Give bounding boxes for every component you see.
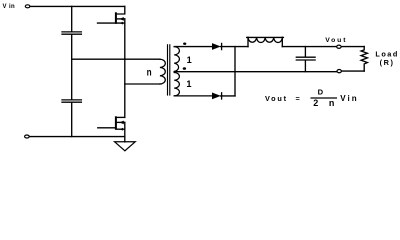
- svg-text:1: 1: [187, 55, 192, 65]
- svg-text:1: 1: [186, 79, 191, 89]
- svg-text:V in: V in: [3, 4, 16, 10]
- svg-text:n: n: [329, 98, 335, 108]
- svg-text:2: 2: [313, 98, 318, 108]
- svg-text:n: n: [147, 68, 152, 79]
- svg-text:(R): (R): [380, 58, 395, 67]
- svg-text:Vout =: Vout =: [265, 94, 302, 103]
- svg-text:Vout: Vout: [325, 37, 347, 44]
- svg-text:Vin: Vin: [340, 94, 358, 103]
- svg-text:Load: Load: [375, 49, 398, 58]
- svg-text:D: D: [318, 87, 324, 96]
